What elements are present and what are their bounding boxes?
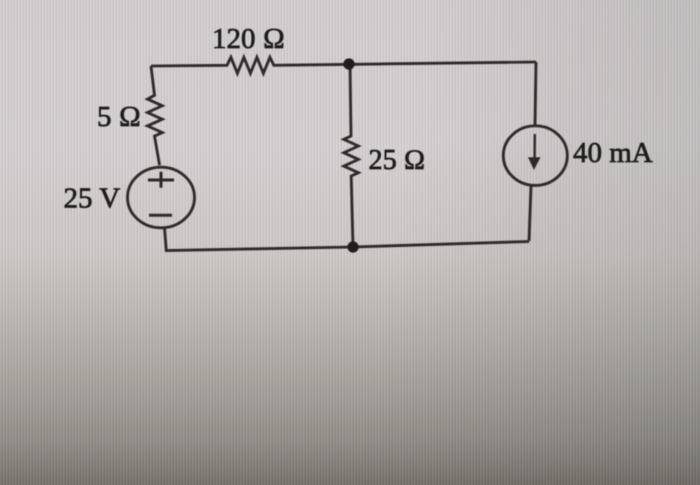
svg-text:25 V: 25 V <box>64 183 121 215</box>
svg-text:40 mA: 40 mA <box>573 137 653 169</box>
svg-text:25 Ω: 25 Ω <box>369 145 426 176</box>
svg-text:5 Ω: 5 Ω <box>97 101 141 133</box>
svg-text:120 Ω: 120 Ω <box>212 23 285 55</box>
